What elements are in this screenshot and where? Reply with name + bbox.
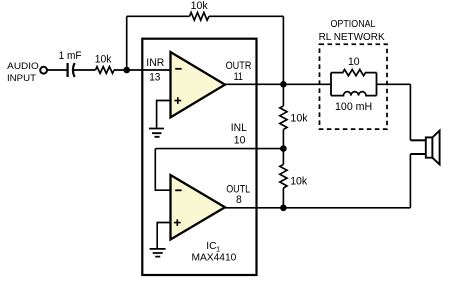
junction J3 bbox=[280, 145, 287, 152]
svg-text:10k: 10k bbox=[290, 175, 308, 187]
resistor R4 10k bbox=[280, 165, 287, 189]
inductor L1 branch bbox=[331, 92, 377, 96]
ground G1 bbox=[149, 129, 164, 137]
svg-text:OPTIONAL: OPTIONAL bbox=[331, 19, 376, 30]
wire OUTR to RL network bbox=[225, 83, 331, 85]
svg-text:10k: 10k bbox=[191, 0, 209, 12]
speaker LS1 body bbox=[426, 137, 433, 157]
svg-text:INR: INR bbox=[146, 57, 164, 69]
op-amp U1A bbox=[171, 52, 226, 117]
resistor R1 10k bbox=[96, 67, 115, 74]
wire speaker top stub bbox=[410, 139, 426, 141]
wire feedback left vertical bbox=[126, 16, 128, 70]
wire INL vertical bbox=[155, 149, 170, 191]
wire speaker rail top bbox=[409, 84, 411, 140]
svg-text:INPUT: INPUT bbox=[7, 73, 36, 83]
svg-text:10k: 10k bbox=[95, 53, 112, 65]
RL network left bar bbox=[330, 73, 332, 96]
junction J4 bbox=[280, 205, 287, 212]
svg-text:INL: INL bbox=[231, 122, 247, 134]
wire U1B plus to ground bbox=[157, 223, 170, 249]
wire rail upper bbox=[282, 84, 284, 106]
wire feedback top right bbox=[209, 15, 283, 17]
op-amp U1B bbox=[171, 175, 226, 240]
op-amp U1B minus input bbox=[175, 189, 181, 191]
svg-text:MAX4410: MAX4410 bbox=[192, 253, 237, 264]
svg-text:11: 11 bbox=[234, 71, 243, 83]
IC box U1 bbox=[142, 39, 256, 275]
wire speaker rail bottom bbox=[409, 154, 411, 208]
junction J2 bbox=[280, 81, 287, 88]
wire rail mid bbox=[282, 130, 284, 165]
svg-text:IC: IC bbox=[206, 241, 216, 252]
wire RL network to speaker rail bbox=[377, 83, 411, 85]
wire U1A plus to ground bbox=[157, 101, 171, 128]
op-amp U1B plus input bbox=[174, 219, 181, 226]
svg-text:RL NETWORK: RL NETWORK bbox=[319, 32, 385, 43]
op-amp U1A plus input bbox=[174, 97, 181, 104]
wire R1 to INR pin bbox=[114, 69, 171, 71]
wire OUTL to speaker bbox=[225, 207, 410, 209]
svg-text:100 mH: 100 mH bbox=[335, 101, 372, 113]
svg-text:10k: 10k bbox=[290, 113, 308, 125]
wire rail lower bbox=[282, 164, 284, 166]
svg-text:10: 10 bbox=[348, 56, 360, 68]
speaker LS1 cone bbox=[432, 131, 439, 165]
wire terminal to C1 bbox=[47, 69, 67, 71]
junction J1 bbox=[123, 67, 130, 74]
dashed box RL network bbox=[320, 44, 388, 129]
svg-text:1 mF: 1 mF bbox=[59, 50, 82, 62]
ground G2 bbox=[150, 249, 166, 257]
capacitor C1 bbox=[66, 63, 68, 77]
resistor R2 10k feedback bbox=[190, 12, 210, 20]
wire INL horizontal bbox=[155, 148, 283, 150]
svg-text:8: 8 bbox=[236, 194, 242, 206]
op-amp U1A minus input bbox=[175, 68, 181, 70]
wire rail between R4 and OUTL bbox=[282, 188, 284, 208]
wire feedback right vertical bbox=[282, 16, 284, 84]
wire feedback top left bbox=[127, 15, 190, 17]
resistor R5 branch bbox=[331, 70, 377, 76]
resistor R3 10k bbox=[280, 106, 287, 130]
wire speaker bottom stub bbox=[410, 153, 426, 155]
svg-text:AUDIO: AUDIO bbox=[7, 61, 39, 71]
wire C1 to R1 bbox=[73, 69, 95, 71]
svg-text:10: 10 bbox=[234, 134, 246, 146]
input terminal bbox=[40, 67, 47, 74]
RL network right bar bbox=[376, 73, 378, 96]
svg-text:13: 13 bbox=[149, 71, 160, 83]
